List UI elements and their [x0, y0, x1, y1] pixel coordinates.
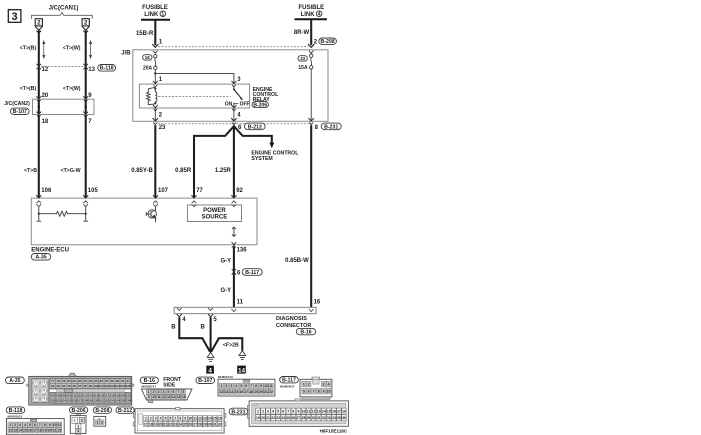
svg-text:B-208: B-208: [95, 408, 109, 414]
svg-text:19: 19: [254, 390, 258, 394]
svg-text:32: 32: [322, 416, 326, 420]
svg-text:LINK: LINK: [144, 12, 159, 18]
ground ref 14: [237, 366, 246, 375]
transistor inside ECU: [146, 207, 156, 223]
svg-text:22: 22: [271, 416, 275, 420]
svg-text:17: 17: [244, 390, 248, 394]
svg-text:79: 79: [62, 379, 66, 383]
wire branch to ground 14: [211, 338, 242, 351]
svg-text:1: 1: [74, 419, 76, 423]
svg-text:8: 8: [179, 416, 181, 420]
svg-text:33: 33: [300, 56, 306, 61]
svg-text:SYSTEM: SYSTEM: [251, 156, 272, 162]
svg-text:34: 34: [332, 416, 336, 420]
svg-text:89: 89: [116, 379, 120, 383]
svg-text:16: 16: [28, 429, 32, 433]
svg-text:92: 92: [51, 384, 55, 388]
svg-text:16: 16: [145, 55, 151, 60]
svg-text:23: 23: [173, 422, 177, 426]
connector drawing B-206 body: [70, 414, 86, 435]
svg-text:10: 10: [188, 416, 192, 420]
svg-text:4: 4: [318, 12, 321, 18]
svg-text:11: 11: [58, 423, 62, 427]
svg-text:2: 2: [81, 419, 83, 423]
svg-text:15: 15: [234, 390, 238, 394]
svg-text:27: 27: [297, 416, 301, 420]
svg-text:J/C(CAN1): J/C(CAN1): [49, 5, 79, 11]
svg-text:31: 31: [317, 416, 321, 420]
junction block J/B: [133, 50, 328, 122]
svg-text:91: 91: [127, 379, 131, 383]
svg-text:18: 18: [42, 119, 49, 125]
svg-text:4: 4: [208, 367, 212, 374]
wire 0.85B-W (8 to diagnosis 16): [310, 125, 312, 307]
svg-text:26: 26: [188, 422, 192, 426]
svg-text:2: 2: [14, 423, 16, 427]
svg-text:18: 18: [342, 409, 346, 413]
svg-text:83: 83: [83, 379, 87, 383]
svg-text:94: 94: [62, 384, 66, 388]
svg-text:4: 4: [272, 409, 274, 413]
ECU pin symbols at top: [36, 195, 41, 198]
svg-text:1: 1: [257, 409, 259, 413]
svg-text:110: 110: [66, 394, 71, 398]
svg-text:10: 10: [302, 409, 306, 413]
svg-text:11: 11: [193, 416, 197, 420]
svg-text:81: 81: [73, 379, 77, 383]
svg-text:<T>(B): <T>(B): [20, 86, 37, 92]
svg-text:85: 85: [94, 379, 98, 383]
svg-text:MU801615: MU801615: [8, 415, 23, 419]
svg-text:8R-W: 8R-W: [294, 30, 310, 36]
svg-text:111: 111: [72, 394, 77, 398]
connector drawing B-231 body: [247, 399, 348, 426]
svg-text:0.85Y-B: 0.85Y-B: [131, 168, 153, 174]
svg-text:14: 14: [172, 395, 176, 399]
svg-text:20: 20: [42, 93, 49, 99]
connector ref B-107 (J/C CAN2): [11, 108, 30, 115]
POWER SOURCE block: [187, 205, 241, 222]
svg-text:2: 2: [150, 416, 152, 420]
svg-text:4: 4: [77, 429, 79, 433]
J/B bottom pins 23 / 6 / 8: [158, 123, 309, 125]
wire CAN-L vertical left: [38, 31, 40, 199]
svg-text:31: 31: [213, 422, 217, 426]
svg-text:6: 6: [245, 384, 247, 388]
svg-text:<T>G-W: <T>G-W: [61, 168, 81, 174]
svg-text:15: 15: [23, 429, 27, 433]
svg-text:<T>(W): <T>(W): [63, 45, 81, 51]
svg-text:<T>B: <T>B: [24, 168, 37, 174]
connector ref A-35: [31, 254, 50, 261]
svg-text:3: 3: [230, 384, 232, 388]
svg-text:10: 10: [264, 384, 268, 388]
svg-text:B-206: B-206: [72, 408, 86, 414]
connector ref B-206: [252, 102, 268, 109]
svg-text:136: 136: [237, 248, 248, 254]
svg-text:B-212: B-212: [248, 124, 262, 130]
connector drawing B-208 body: [94, 416, 106, 426]
svg-text:5: 5: [303, 389, 305, 393]
svg-text:5: 5: [29, 423, 31, 427]
svg-text:7: 7: [287, 409, 289, 413]
svg-text:18: 18: [38, 429, 42, 433]
svg-text:3: 3: [322, 382, 324, 386]
svg-text:19: 19: [154, 422, 158, 426]
svg-text:15: 15: [177, 395, 181, 399]
connector pin 2 J/C(CAN1) left: [35, 19, 42, 34]
connector drawing B-208 label: [93, 407, 111, 414]
svg-text:B-117: B-117: [282, 378, 296, 384]
svg-text:ENGINE-ECU: ENGINE-ECU: [31, 247, 69, 253]
svg-text:95: 95: [67, 384, 71, 388]
svg-text:8: 8: [44, 423, 46, 427]
connector ref B-208: [319, 38, 337, 45]
svg-text:0.85B-W: 0.85B-W: [285, 258, 309, 264]
connector drawing B-107 label: [196, 377, 215, 384]
svg-text:5: 5: [165, 416, 167, 420]
svg-text:B-206: B-206: [253, 102, 267, 108]
svg-text:9: 9: [148, 395, 150, 399]
svg-text:9: 9: [49, 423, 51, 427]
svg-text:1: 1: [96, 420, 98, 424]
svg-text:107: 107: [158, 188, 169, 194]
svg-text:90: 90: [121, 379, 125, 383]
svg-text:7: 7: [39, 423, 41, 427]
connector pin 2 J/C(CAN1) right: [82, 19, 89, 34]
svg-text:7: 7: [174, 416, 176, 420]
svg-text:2: 2: [153, 390, 155, 394]
wire 8R-W: [310, 19, 312, 45]
svg-text:11: 11: [269, 384, 273, 388]
svg-text:G-Y: G-Y: [221, 288, 232, 294]
svg-text:6: 6: [282, 409, 284, 413]
ground symbol right: [239, 351, 246, 360]
svg-text:B: B: [171, 325, 176, 331]
connector ref B-231: [321, 123, 341, 130]
svg-text:14: 14: [18, 429, 22, 433]
connector ref B-117: [242, 269, 262, 276]
svg-text:POWER: POWER: [203, 208, 226, 214]
J/B internal wiring to relay: [154, 69, 156, 84]
svg-text:9: 9: [184, 416, 186, 420]
J/C(CAN1) brace: [32, 13, 93, 19]
svg-text:MU804017: MU804017: [280, 384, 295, 388]
svg-text:20: 20: [48, 429, 52, 433]
svg-text:12: 12: [42, 67, 49, 73]
node J/C(CAN2) box: [33, 99, 95, 114]
svg-text:B-118: B-118: [9, 408, 23, 414]
twisted pair arrow left: [43, 41, 45, 58]
diagnosis connector box B-16: [174, 307, 316, 313]
svg-text:14: 14: [230, 390, 234, 394]
connector drawing B-117 label: [280, 377, 299, 384]
svg-text:26: 26: [291, 416, 295, 420]
J/B internal wire fuse33 down: [310, 69, 312, 121]
svg-text:B-107: B-107: [198, 378, 212, 384]
svg-text:4: 4: [160, 416, 162, 420]
svg-text:FUSIBLE: FUSIBLE: [298, 5, 324, 11]
svg-text:8: 8: [182, 390, 184, 394]
svg-text:16: 16: [218, 416, 222, 420]
svg-text:84: 84: [89, 379, 93, 383]
relay coil + resistor: [154, 88, 156, 90]
svg-text:8: 8: [292, 409, 294, 413]
wire 0.85Y-B (23 to ECU 107): [154, 125, 156, 198]
svg-text:25: 25: [286, 416, 290, 420]
svg-text:18: 18: [249, 390, 253, 394]
svg-text:1: 1: [221, 384, 223, 388]
svg-text:13: 13: [225, 390, 229, 394]
connector drawing B-107 body: [218, 379, 275, 396]
svg-text:<T>(B): <T>(B): [20, 45, 37, 51]
svg-text:22: 22: [169, 422, 173, 426]
A-35 pin grid 77-106: [50, 378, 131, 389]
svg-text:16: 16: [239, 390, 243, 394]
svg-text:20: 20: [159, 422, 163, 426]
svg-text:77: 77: [51, 379, 55, 383]
svg-text:6: 6: [169, 416, 171, 420]
svg-text:21: 21: [266, 416, 270, 420]
wire CAN-H vertical right: [85, 31, 87, 199]
svg-text:36: 36: [342, 416, 346, 420]
svg-text:28: 28: [198, 422, 202, 426]
svg-text:106: 106: [126, 384, 131, 388]
connector drawing B-212 label: [116, 407, 134, 414]
svg-text:MU801513: MU801513: [218, 375, 233, 379]
svg-text:22: 22: [269, 390, 273, 394]
A-35 pin grid 107-136: [50, 393, 131, 404]
svg-text:121: 121: [126, 394, 131, 398]
svg-text:1: 1: [161, 12, 164, 18]
svg-text:MU803717: MU803717: [142, 385, 157, 389]
svg-text:6: 6: [173, 390, 175, 394]
svg-text:3: 3: [158, 390, 160, 394]
connector drawing B-118 body: [6, 419, 64, 435]
svg-text:16: 16: [314, 300, 321, 306]
svg-text:21: 21: [53, 429, 57, 433]
svg-text:6: 6: [34, 423, 36, 427]
CAN termination resistor network: [36, 207, 41, 221]
svg-text:29: 29: [203, 422, 207, 426]
connector ref B-118: [98, 65, 116, 72]
svg-text:13: 13: [88, 67, 95, 73]
svg-text:14: 14: [322, 409, 326, 413]
connector drawing B-206 label: [70, 407, 88, 414]
svg-text:10: 10: [327, 389, 331, 393]
svg-text:30: 30: [208, 422, 212, 426]
svg-text:29: 29: [307, 416, 311, 420]
connector drawing B-118 label: [6, 407, 25, 414]
svg-text:J/C(CAN2): J/C(CAN2): [4, 101, 30, 107]
svg-text:3: 3: [12, 11, 18, 23]
svg-text:7: 7: [250, 384, 252, 388]
svg-text:LINK: LINK: [301, 12, 316, 18]
svg-text:3: 3: [267, 409, 269, 413]
connector drawing A-35 label: [6, 377, 25, 384]
svg-text:24: 24: [281, 416, 285, 420]
svg-text:16: 16: [182, 395, 186, 399]
svg-text:13: 13: [167, 395, 171, 399]
svg-text:20A: 20A: [143, 65, 153, 71]
sheet index box 3: [8, 10, 21, 23]
svg-text:5: 5: [240, 384, 242, 388]
svg-text:ON: ON: [225, 102, 233, 108]
svg-text:25: 25: [183, 422, 187, 426]
svg-text:1: 1: [9, 423, 11, 427]
svg-text:B-212: B-212: [118, 408, 132, 414]
svg-text:4: 4: [327, 382, 329, 386]
svg-text:15: 15: [213, 416, 217, 420]
connector drawing B-212 body: [133, 408, 226, 433]
svg-text:7: 7: [178, 390, 180, 394]
svg-text:11: 11: [307, 409, 311, 413]
svg-text:1: 1: [303, 382, 305, 386]
connector drawing A-35 body: [27, 373, 134, 405]
svg-text:<T>(W): <T>(W): [63, 86, 81, 92]
svg-text:24: 24: [178, 422, 182, 426]
connector ref B-212: [245, 123, 266, 130]
resistor R term: [39, 211, 86, 216]
wire G-Y: [233, 246, 235, 307]
svg-text:118: 118: [110, 394, 115, 398]
svg-text:B-107: B-107: [13, 109, 27, 115]
wire branch to ECU 77 (0.85R): [194, 126, 234, 198]
svg-text:88: 88: [110, 379, 114, 383]
svg-text:3: 3: [155, 416, 157, 420]
fusible link 4 bus bar: [295, 18, 328, 20]
svg-text:17: 17: [33, 429, 37, 433]
svg-text:9: 9: [323, 389, 325, 393]
svg-text:22: 22: [58, 429, 62, 433]
svg-text:A-35: A-35: [35, 255, 46, 261]
svg-text:6: 6: [308, 389, 310, 393]
fuse 16 20A: [154, 54, 157, 69]
connector ref B-16: [296, 328, 315, 335]
svg-text:136: 136: [126, 399, 131, 403]
svg-text:92: 92: [236, 188, 243, 194]
svg-text:32: 32: [218, 422, 222, 426]
svg-text:21: 21: [264, 390, 268, 394]
svg-text:G-Y: G-Y: [221, 258, 232, 264]
svg-text:15: 15: [327, 409, 331, 413]
svg-text:0.85R: 0.85R: [175, 168, 192, 174]
svg-text:18: 18: [149, 422, 153, 426]
ENGINE-ECU box A-35: [31, 198, 257, 245]
svg-text:8: 8: [255, 384, 257, 388]
B-16 bottom tab: [148, 400, 153, 403]
svg-text:96: 96: [73, 384, 77, 388]
fusible link 1 bus bar: [141, 19, 170, 21]
svg-text:17: 17: [144, 422, 148, 426]
svg-text:13: 13: [13, 429, 17, 433]
svg-text:SIDE: SIDE: [163, 382, 176, 388]
svg-text:5: 5: [168, 390, 170, 394]
svg-text:17: 17: [337, 409, 341, 413]
svg-text:12: 12: [162, 395, 166, 399]
svg-text:FUSIBLE: FUSIBLE: [142, 5, 168, 11]
wire B from pin 5: [210, 317, 212, 352]
svg-text:82: 82: [78, 379, 82, 383]
svg-text:99: 99: [89, 384, 93, 388]
wire branch to engine control system: [234, 126, 272, 143]
J/C(CAN2) internal junction dots: [38, 106, 40, 108]
relay actuation dashed link: [159, 96, 231, 98]
svg-text:1: 1: [145, 416, 147, 420]
svg-text:33: 33: [327, 416, 331, 420]
svg-text:2: 2: [226, 384, 228, 388]
svg-text:A-35: A-35: [9, 378, 20, 384]
svg-text:86: 86: [100, 379, 104, 383]
svg-text:1: 1: [148, 390, 150, 394]
A-35 round pins 71-76: [32, 379, 48, 403]
internal link to pin 136: [233, 227, 235, 237]
svg-text:B-231: B-231: [324, 124, 338, 130]
svg-text:35: 35: [337, 416, 341, 420]
svg-text:8: 8: [318, 389, 320, 393]
svg-text:106: 106: [41, 188, 52, 194]
svg-text:12: 12: [312, 409, 316, 413]
svg-text:B: B: [200, 325, 205, 331]
svg-text:2: 2: [101, 420, 103, 424]
wire from relay pin4: branch node: [233, 125, 235, 198]
svg-text:SOURCE: SOURCE: [202, 215, 228, 221]
connector drawing B-16 label: [140, 377, 158, 384]
svg-text:12: 12: [198, 416, 202, 420]
ECU bottom pin 136: [232, 242, 237, 245]
svg-text:DIAGNOSIS: DIAGNOSIS: [276, 316, 307, 322]
svg-text:B-117: B-117: [245, 270, 259, 276]
svg-text:B-16: B-16: [144, 378, 155, 384]
svg-text:21: 21: [164, 422, 168, 426]
svg-text:14: 14: [208, 416, 212, 420]
svg-text:77: 77: [196, 188, 203, 194]
svg-text:5: 5: [277, 409, 279, 413]
svg-text:4: 4: [235, 384, 237, 388]
svg-text:27: 27: [193, 422, 197, 426]
svg-text:B-16: B-16: [300, 330, 311, 336]
svg-text:14: 14: [238, 367, 246, 374]
svg-text:7: 7: [313, 389, 315, 393]
svg-text:H8F15E118C: H8F15E118C: [320, 429, 348, 434]
svg-text:16: 16: [332, 409, 336, 413]
svg-text:3: 3: [77, 424, 79, 428]
fuse 33 15A: [310, 54, 313, 69]
svg-text:4: 4: [163, 390, 165, 394]
svg-text:12: 12: [220, 390, 224, 394]
svg-text:9: 9: [297, 409, 299, 413]
svg-text:20: 20: [261, 416, 265, 420]
svg-text:15B-R: 15B-R: [136, 31, 154, 37]
svg-text:9: 9: [260, 384, 262, 388]
svg-text:23: 23: [276, 416, 280, 420]
connector drawing B-117 body: [300, 377, 332, 399]
svg-text:3: 3: [19, 423, 21, 427]
svg-text:B-118: B-118: [100, 66, 114, 72]
svg-text:93: 93: [56, 384, 60, 388]
svg-text:15A: 15A: [298, 65, 308, 71]
svg-text:87: 87: [105, 379, 109, 383]
connector drawing B-231 label: [229, 408, 248, 415]
ground ref 4: [206, 366, 214, 375]
svg-text:105: 105: [88, 188, 99, 194]
inline connector 6 B-117: [232, 269, 236, 271]
svg-text:80: 80: [67, 379, 71, 383]
svg-text:11: 11: [157, 395, 161, 399]
svg-text:11: 11: [237, 300, 244, 306]
connector drawing B-16 body (trapezoid): [141, 389, 192, 400]
svg-text:23: 23: [159, 125, 166, 131]
